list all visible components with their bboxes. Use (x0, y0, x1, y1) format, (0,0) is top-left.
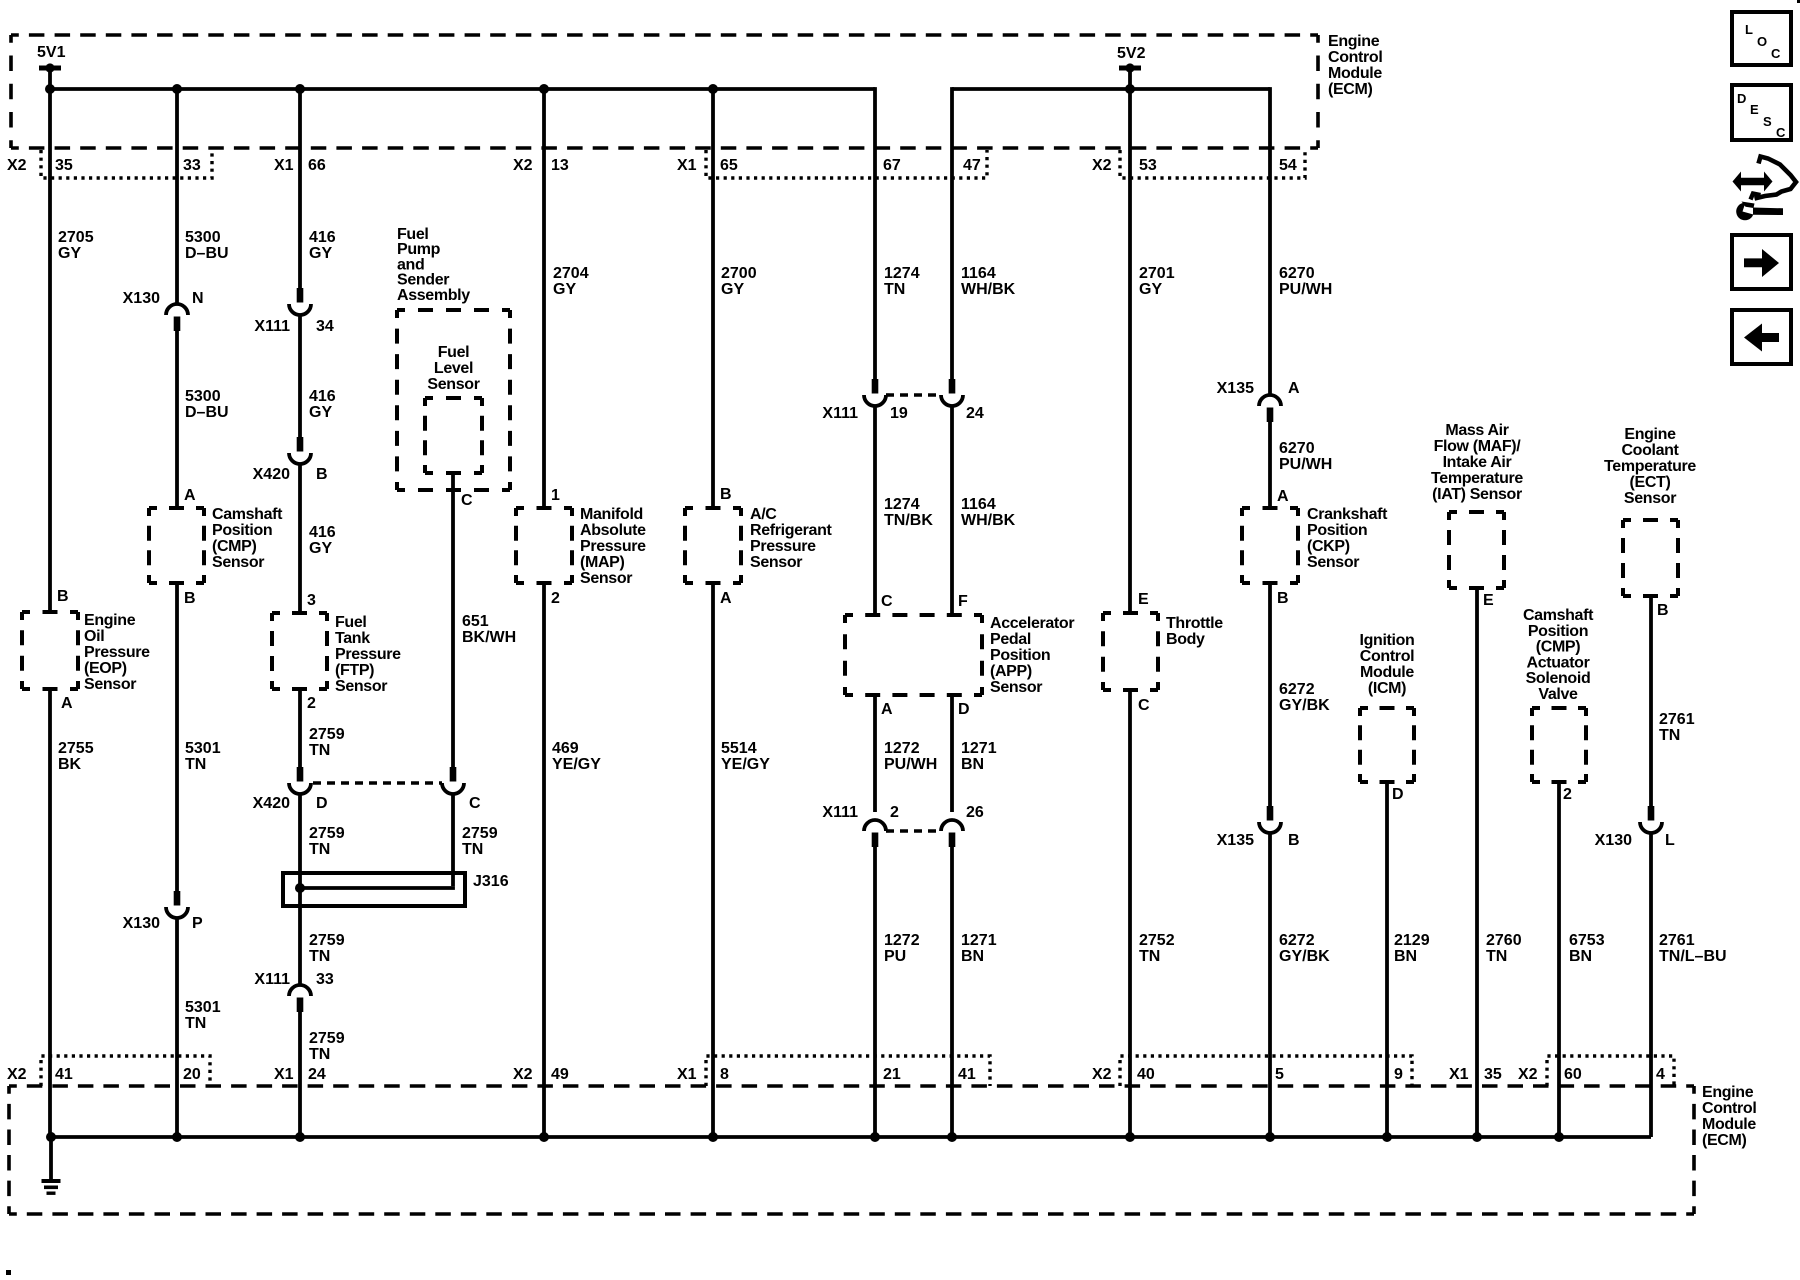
svg-text:WH/BK: WH/BK (961, 512, 1016, 529)
svg-text:Sensor: Sensor (427, 376, 479, 393)
svg-text:YE/GY: YE/GY (721, 756, 770, 773)
wire label 1164 WH/BK (961, 265, 1016, 298)
wire label 2759 TN (second) (309, 825, 345, 858)
power tap 5V2 (1117, 45, 1146, 73)
svg-text:416: 416 (309, 524, 336, 541)
wire 6753 BN (CMP actuator pin 2 to ECM X2-60) (1557, 782, 1561, 1137)
wire 1271 BN (X111 26 to ECM pin 41) (950, 846, 954, 1137)
svg-text:A: A (1288, 380, 1300, 397)
svg-text:651: 651 (462, 613, 489, 630)
wire label 1272 PU/WH (884, 740, 937, 773)
svg-text:B: B (316, 466, 328, 483)
MAF/IAT sensor name text (1431, 422, 1523, 503)
svg-text:L: L (1745, 22, 1753, 37)
wire 6272 GY/BK (X135 B to ECM pin 5) (1268, 833, 1272, 1137)
svg-text:2761: 2761 (1659, 932, 1695, 949)
page corner mark top-right (1797, 0, 1800, 3)
svg-text:X135: X135 (1217, 832, 1254, 849)
svg-text:GY: GY (309, 245, 332, 262)
wire label 469 YE/GY (552, 740, 601, 773)
svg-text:5: 5 (1275, 1066, 1284, 1083)
svg-text:Engine: Engine (1328, 33, 1380, 50)
wire label 2705 GY (58, 229, 94, 262)
wire label 2704 GY (553, 265, 589, 298)
svg-text:Module: Module (1360, 664, 1414, 681)
svg-text:BN: BN (961, 948, 984, 965)
svg-text:35: 35 (1484, 1066, 1502, 1083)
svg-text:BN: BN (961, 756, 984, 773)
EOP sensor name text (84, 612, 150, 693)
svg-text:54: 54 (1279, 157, 1297, 174)
svg-text:X2: X2 (7, 1066, 27, 1083)
svg-text:BN: BN (1569, 948, 1592, 965)
bottom connector pin dotted box X2 (pins 40,5,9) (1120, 1056, 1412, 1086)
wire 2700 GY (bus to ACP pin B) (711, 89, 715, 508)
svg-text:6272: 6272 (1279, 681, 1315, 698)
svg-text:TN: TN (309, 1046, 330, 1063)
wire label 2700 GY (721, 265, 757, 298)
svg-text:N: N (192, 290, 204, 307)
wire 5300 D-BU (X130 N to CMP pin A) (175, 328, 179, 508)
CMP actuator name text (1523, 607, 1594, 703)
svg-text:Position: Position (212, 522, 272, 539)
svg-text:E: E (1138, 591, 1149, 608)
svg-text:B: B (1288, 832, 1300, 849)
svg-text:X2: X2 (1092, 1066, 1112, 1083)
svg-text:1164: 1164 (961, 265, 996, 282)
svg-text:5300: 5300 (185, 388, 221, 405)
wire label 416 GY (upper) (309, 229, 336, 262)
bottom connector pin dotted box X2 (pins 60,4) (1547, 1056, 1674, 1086)
svg-text:TN/BK: TN/BK (884, 512, 933, 529)
svg-text:Absolute: Absolute (580, 522, 646, 539)
CKP sensor name text (1307, 506, 1388, 571)
wire bottom ground bus (51, 1135, 1651, 1139)
node B (EOP top pin) (57, 588, 69, 605)
svg-text:Ignition: Ignition (1360, 632, 1415, 649)
svg-text:Fuel: Fuel (438, 344, 470, 361)
junction dots on top bus (45, 84, 1135, 94)
svg-text:20: 20 (183, 1066, 201, 1083)
svg-text:X130: X130 (123, 915, 160, 932)
power tap 5V1 (37, 44, 66, 73)
svg-text:TN: TN (1139, 948, 1160, 965)
bottom ECM pin number labels row (7, 1066, 1665, 1083)
wire label 5301 TN (upper) (185, 740, 221, 773)
svg-text:B: B (1277, 590, 1289, 607)
svg-text:Engine: Engine (1624, 426, 1676, 443)
svg-text:1274: 1274 (884, 265, 920, 282)
svg-text:D: D (316, 795, 328, 812)
wire 651 BK/WH (fuel level sensor pin C to X420 C) (451, 473, 455, 768)
svg-text:5300: 5300 (185, 229, 221, 246)
sensor box Crankshaft Position (CKP) Sensor (1242, 508, 1298, 583)
wire label 2761 TN (1659, 711, 1695, 744)
svg-text:TN: TN (462, 841, 483, 858)
svg-text:416: 416 (309, 229, 336, 246)
top connector pin dotted box X2 (pins 35,33) (41, 150, 212, 178)
node C (fuel level sensor pin) (461, 492, 473, 509)
svg-text:GY/BK: GY/BK (1279, 697, 1330, 714)
node A (APP bottom pin) (881, 701, 893, 718)
svg-text:Assembly: Assembly (397, 287, 470, 304)
icon box DESC (1732, 85, 1791, 140)
svg-text:Tank: Tank (335, 630, 370, 647)
bottom connector pin dotted box X1 (pins 8,21,41) (706, 1056, 990, 1086)
wire 2129 BN (ICM pin D to ECM pin 9) (1385, 782, 1389, 1137)
svg-text:Refrigerant: Refrigerant (750, 522, 833, 539)
wire 416 GY (X420 B to FTP pin 3) (298, 464, 302, 613)
wire label 6272 GY/BK (lower) (1279, 932, 1330, 965)
svg-text:2759: 2759 (309, 1030, 345, 1047)
wire 5514 YE/GY (ACP pin A to ECM X1-8) (711, 583, 715, 1137)
svg-text:B: B (720, 486, 732, 503)
FTP sensor name text (335, 614, 401, 695)
svg-text:Sensor: Sensor (212, 554, 264, 571)
connector X420 pin B (253, 437, 328, 483)
svg-text:Module: Module (1328, 65, 1382, 82)
svg-text:D: D (1392, 786, 1404, 803)
svg-text:9: 9 (1394, 1066, 1403, 1083)
svg-text:(CMP): (CMP) (212, 538, 256, 555)
ground symbol G103 (42, 1179, 61, 1195)
wire 2761 TN/L-BU (X130 L to ECM pin 4) (1649, 833, 1653, 1137)
connector X111 pin 34 (254, 288, 334, 335)
wire label 5514 YE/GY (721, 740, 770, 773)
svg-text:2752: 2752 (1139, 932, 1175, 949)
svg-text:BN: BN (1394, 948, 1417, 965)
svg-text:J316: J316 (473, 873, 509, 890)
sensor box Camshaft Position (CMP) Sensor (149, 508, 204, 583)
svg-text:67: 67 (883, 157, 901, 174)
svg-text:X111: X111 (822, 804, 858, 821)
component box Fuel Pump and Sender Assembly (397, 310, 510, 490)
sensor box Mass Air Flow (MAF)/Intake Air Temperature (IAT) Sensor (1449, 512, 1504, 588)
icon box left arrow (1732, 310, 1791, 364)
svg-text:1271: 1271 (961, 740, 997, 757)
node D (ICM pin) (1392, 786, 1404, 803)
connector X111 pin 19 (822, 379, 908, 422)
wire 5300 D-BU (bus to X130 N) (175, 89, 179, 304)
svg-text:GY/BK: GY/BK (1279, 948, 1330, 965)
sensor box Fuel Tank Pressure (FTP) Sensor (272, 613, 327, 689)
svg-text:3: 3 (307, 592, 316, 609)
svg-text:B: B (1657, 602, 1669, 619)
svg-text:(APP): (APP) (990, 663, 1032, 680)
Fuel Pump and Sender Assembly name text (397, 226, 470, 304)
svg-text:2759: 2759 (309, 932, 345, 949)
top connector pin dotted box X2 (pins 53,54) (1120, 150, 1305, 178)
svg-text:A: A (881, 701, 893, 718)
svg-text:Pedal: Pedal (990, 631, 1031, 648)
wire 416 GY (bus to X111 34) (298, 89, 302, 289)
wire label 2759 TN (third) (309, 932, 345, 965)
svg-text:41: 41 (958, 1066, 976, 1083)
svg-text:(ECM): (ECM) (1702, 1132, 1746, 1149)
svg-text:X1: X1 (1449, 1066, 1469, 1083)
svg-text:21: 21 (883, 1066, 901, 1083)
wire 1274 TN/BK (X111 19 to APP pin C) (873, 406, 877, 615)
svg-text:2759: 2759 (462, 825, 498, 842)
svg-text:Coolant: Coolant (1621, 442, 1679, 459)
svg-text:X135: X135 (1217, 380, 1254, 397)
CMP sensor name text (212, 506, 283, 571)
svg-text:X111: X111 (822, 405, 858, 422)
svg-text:(CMP): (CMP) (1536, 639, 1580, 656)
junction dots on bottom bus (46, 1132, 1564, 1142)
Fuel Level Sensor name text (427, 344, 479, 393)
sensor box A/C Refrigerant Pressure Sensor (685, 508, 741, 583)
svg-text:6272: 6272 (1279, 932, 1315, 949)
node 2 (CMP actuator pin) (1563, 786, 1572, 803)
connector X420 pin C (442, 767, 481, 812)
svg-text:F: F (958, 593, 968, 610)
svg-text:X2: X2 (1092, 157, 1112, 174)
wire label 2761 TN/L-BU (1659, 932, 1727, 965)
connector X130 pin P (123, 891, 203, 932)
wire 2759 TN (FTP pin 2 to X420 D) (298, 689, 302, 768)
svg-text:X2: X2 (513, 157, 533, 174)
wire 2759 TN (X420 D to splice J316) (298, 794, 302, 888)
svg-text:Temperature: Temperature (1431, 470, 1523, 487)
svg-text:(MAP): (MAP) (580, 554, 624, 571)
svg-text:A: A (1277, 488, 1289, 505)
wire label 5300 D-BU (upper) (185, 229, 229, 262)
svg-text:416: 416 (309, 388, 336, 405)
wire label 1274 TN (884, 265, 920, 298)
svg-text:D–BU: D–BU (185, 404, 229, 421)
svg-text:33: 33 (183, 157, 201, 174)
APP sensor name text (990, 615, 1074, 696)
svg-text:(IAT) Sensor: (IAT) Sensor (1432, 486, 1522, 503)
node C (throttle body bottom pin) (1138, 697, 1150, 714)
svg-text:GY: GY (553, 281, 576, 298)
svg-text:D: D (1737, 91, 1746, 106)
svg-text:A: A (184, 487, 196, 504)
wire label 2760 TN (1486, 932, 1522, 965)
svg-text:(ICM): (ICM) (1368, 680, 1406, 697)
wire 1272 PU (X111 2 to ECM pin 21) (873, 846, 877, 1137)
svg-text:C: C (1138, 697, 1150, 714)
svg-text:E: E (1750, 102, 1759, 117)
ECM bottom dashed box (Engine Control Module) (9, 1086, 1694, 1214)
wire label 6270 PU/WH (upper) (1279, 265, 1332, 298)
svg-text:C: C (461, 492, 473, 509)
wire 1164 WH/BK (bus corner to X111 24) (950, 87, 954, 380)
connector X111 pin 24 (941, 379, 984, 422)
page corner mark bottom-left (6, 1270, 11, 1275)
component box Throttle Body (1103, 613, 1158, 690)
svg-text:PU/WH: PU/WH (1279, 281, 1332, 298)
wire 469 YE/GY (MAP pin 2 to ECM X2-49) (542, 583, 546, 1137)
svg-text:TN/L–BU: TN/L–BU (1659, 948, 1727, 965)
svg-text:2759: 2759 (309, 825, 345, 842)
connector X135 pin A (1217, 380, 1300, 422)
svg-text:Control: Control (1328, 49, 1382, 66)
svg-text:2704: 2704 (553, 265, 589, 282)
svg-text:X1: X1 (677, 1066, 697, 1083)
svg-text:41: 41 (55, 1066, 73, 1083)
top ECM pin number labels row (7, 157, 1297, 174)
wire label 5301 TN (lower) (185, 999, 221, 1032)
svg-text:2: 2 (890, 804, 899, 821)
svg-text:Engine: Engine (84, 612, 136, 629)
svg-text:13: 13 (551, 157, 569, 174)
svg-text:S: S (1763, 114, 1772, 129)
svg-text:TN: TN (884, 281, 905, 298)
svg-text:X130: X130 (1595, 832, 1632, 849)
svg-text:B: B (184, 590, 196, 607)
svg-text:X1: X1 (274, 1066, 294, 1083)
svg-text:TN: TN (309, 841, 330, 858)
svg-text:24: 24 (308, 1066, 326, 1083)
svg-text:Sensor: Sensor (1624, 490, 1676, 507)
wire label 1164 WH/BK (lower) (961, 496, 1016, 529)
svg-text:Module: Module (1702, 1116, 1756, 1133)
svg-text:5V1: 5V1 (37, 44, 66, 61)
svg-text:Flow (MAF)/: Flow (MAF)/ (1434, 438, 1522, 455)
ICM name text (1360, 632, 1415, 697)
svg-text:2759: 2759 (309, 726, 345, 743)
node B (CMP bottom pin) (184, 590, 196, 607)
node B (ECT pin) (1657, 602, 1669, 619)
wire 5301 TN (X130 P to ECM pin 20) (175, 918, 179, 1137)
wire 2759 TN (J316 to X111 33) (298, 888, 302, 985)
svg-text:(FTP): (FTP) (335, 662, 374, 679)
wire label 5300 D-BU (lower) (185, 388, 229, 421)
svg-text:Control: Control (1702, 1100, 1756, 1117)
svg-text:(ECM): (ECM) (1328, 81, 1372, 98)
svg-text:Mass Air: Mass Air (1445, 422, 1508, 439)
svg-text:A/C: A/C (750, 506, 777, 523)
wire 1274 TN (bus corner to X111 19) (873, 87, 877, 380)
svg-text:(EOP): (EOP) (84, 660, 127, 677)
wire label 2755 BK (58, 740, 94, 773)
svg-text:O: O (1757, 34, 1767, 49)
node E (MAF pin) (1483, 592, 1494, 609)
wire 2701 GY (5V2 to throttle body pin E) (1128, 68, 1132, 613)
sensor box Engine Coolant Temperature (ECT) Sensor (1623, 520, 1678, 596)
svg-text:2700: 2700 (721, 265, 757, 282)
svg-text:33: 33 (316, 971, 334, 988)
wire label 416 GY (lower) (309, 524, 336, 557)
connector X111 pin 26 (941, 804, 984, 847)
svg-text:E: E (1483, 592, 1494, 609)
svg-text:X1: X1 (274, 157, 294, 174)
svg-text:40: 40 (1137, 1066, 1155, 1083)
wire top 5V1 bus (left segment) (50, 87, 875, 91)
wire label 2759 TN (fourth) (309, 1030, 345, 1063)
svg-text:TN: TN (309, 948, 330, 965)
svg-text:65: 65 (720, 157, 738, 174)
wire 5301 TN (CMP pin B to X130 P) (175, 583, 179, 892)
node F (APP pin) (958, 593, 968, 610)
wire 6272 GY/BK (CKP pin B to X135 B) (1268, 583, 1272, 807)
svg-text:Fuel: Fuel (335, 614, 367, 631)
svg-text:5301: 5301 (185, 999, 221, 1016)
svg-text:Actuator: Actuator (1527, 654, 1590, 671)
svg-text:X111: X111 (254, 318, 290, 335)
wire 2705 GY (5V1 to EOP pin B) (48, 68, 52, 612)
svg-text:6270: 6270 (1279, 265, 1315, 282)
svg-text:1272: 1272 (884, 932, 920, 949)
svg-text:Throttle: Throttle (1166, 615, 1223, 632)
wire label 1274 TN/BK (884, 496, 933, 529)
wire 2760 TN (MAF pin E to ECM X1-35) (1475, 588, 1479, 1137)
svg-text:35: 35 (55, 157, 73, 174)
wire label 2752 TN (1139, 932, 1175, 965)
svg-text:Sensor: Sensor (990, 679, 1042, 696)
svg-text:66: 66 (308, 157, 326, 174)
wire label 1271 BN (961, 740, 997, 773)
svg-text:34: 34 (316, 318, 334, 335)
connector X130 pin L (1595, 806, 1675, 849)
svg-text:Camshaft: Camshaft (1523, 607, 1594, 624)
node 2 (FTP bottom pin) (307, 695, 316, 712)
svg-text:5514: 5514 (721, 740, 757, 757)
svg-text:Sensor: Sensor (750, 554, 802, 571)
node 2 (MAP bottom pin) (551, 590, 560, 607)
ground wire stub (49, 1137, 53, 1179)
svg-text:TN: TN (185, 1015, 206, 1032)
svg-text:1: 1 (551, 487, 560, 504)
svg-text:2705: 2705 (58, 229, 94, 246)
node A (CMP top pin) (184, 487, 196, 504)
wire label 2759 TN (first) (309, 726, 345, 759)
svg-text:Accelerator: Accelerator (990, 615, 1074, 632)
svg-text:1164: 1164 (961, 496, 996, 513)
svg-text:Pressure: Pressure (335, 646, 401, 663)
connector X130 pin N (123, 290, 204, 331)
wire 1272 PU/WH (APP pin A to X111 2) (873, 695, 877, 812)
node 1 (MAP top pin) (551, 487, 560, 504)
svg-text:2: 2 (307, 695, 316, 712)
svg-text:6753: 6753 (1569, 932, 1605, 949)
svg-text:P: P (192, 915, 203, 932)
ECT sensor name text (1604, 426, 1696, 507)
svg-text:A: A (61, 695, 73, 712)
connector X111 pin 2 (822, 804, 899, 847)
svg-text:1272: 1272 (884, 740, 920, 757)
svg-text:Temperature: Temperature (1604, 458, 1696, 475)
svg-text:53: 53 (1139, 157, 1157, 174)
Throttle Body name text (1166, 615, 1223, 648)
svg-text:C: C (881, 593, 893, 610)
svg-text:Position: Position (1528, 623, 1588, 640)
svg-text:5V2: 5V2 (1117, 45, 1146, 62)
wire label 651 BK/WH (462, 613, 516, 646)
svg-text:TN: TN (1659, 727, 1680, 744)
svg-text:Crankshaft: Crankshaft (1307, 506, 1388, 523)
svg-text:YE/GY: YE/GY (552, 756, 601, 773)
svg-text:X1: X1 (677, 157, 697, 174)
connector X111 pin 33 (254, 971, 334, 1012)
node B (ACP top pin) (720, 486, 732, 503)
svg-text:1274: 1274 (884, 496, 920, 513)
svg-text:X2: X2 (513, 1066, 533, 1083)
svg-text:6270: 6270 (1279, 440, 1315, 457)
wire label 1272 PU (884, 932, 920, 965)
svg-text:Sensor: Sensor (580, 570, 632, 587)
svg-text:GY: GY (721, 281, 744, 298)
sensor box Manifold Absolute Pressure (MAP) Sensor (516, 508, 572, 583)
wire 2759 TN (X420 C into splice J316) (451, 794, 455, 886)
sensor box Engine Oil Pressure (EOP) Sensor (22, 612, 78, 689)
svg-text:BK/WH: BK/WH (462, 629, 516, 646)
wire label 6272 GY/BK (upper) (1279, 681, 1330, 714)
svg-text:X420: X420 (253, 466, 290, 483)
svg-text:2129: 2129 (1394, 932, 1430, 949)
